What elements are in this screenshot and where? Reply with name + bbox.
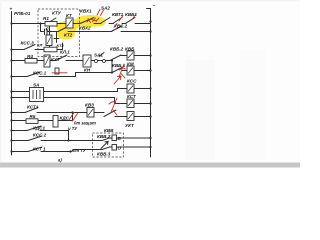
svg-text:КСТ: КСТ [127,94,137,99]
svg-text:КМ: КМ [127,62,134,67]
svg-text:SА: SА [33,83,39,88]
svg-text:КДС: КДС [60,116,70,121]
svg-text:КВБ: КВБ [125,47,135,52]
svg-text:КТ2: КТ2 [64,33,73,38]
svg-text:КСС.3: КСС.3 [21,41,35,46]
svg-text:−: − [153,3,156,8]
svg-text:КН: КН [84,68,91,73]
svg-text:РПБ-01: РПБ-01 [14,11,31,16]
svg-text:КЛ.1: КЛ.1 [60,50,70,55]
svg-text:КВВ.3: КВВ.3 [97,152,111,157]
svg-text:КВВ: КВВ [104,128,114,133]
svg-text:R5: R5 [30,114,36,119]
svg-text:КВХ2: КВХ2 [79,26,91,31]
svg-text:R1: R1 [43,16,49,21]
svg-text:УКТ: УКТ [125,123,135,128]
svg-text:а): а) [58,158,62,163]
svg-text:SА2: SА2 [101,6,110,11]
svg-text:КСТ 1: КСТ 1 [33,147,46,152]
svg-text:0т ТУ: 0т ТУ [73,148,87,153]
svg-text:КВБ.2: КВБ.2 [110,47,124,52]
svg-text:КСС.1: КСС.1 [33,71,47,76]
svg-text:КЛ: КЛ [37,43,42,48]
svg-text:0т защит: 0т защит [74,121,96,126]
svg-text:+: + [10,7,13,12]
svg-text:КСС 2: КСС 2 [33,133,47,138]
svg-text:КТУ: КТУ [52,11,62,16]
svg-text:R4: R4 [27,54,33,59]
svg-text:и ТУ: и ТУ [68,126,78,131]
svg-text:КТ2: КТ2 [57,43,65,48]
svg-text:О: О [118,146,122,151]
svg-text:КСТ1: КСТ1 [27,105,39,110]
svg-text:КВХ1: КВХ1 [80,9,92,14]
svg-text:КСС: КСС [127,79,137,84]
svg-text:КВВ.2: КВВ.2 [97,134,111,139]
svg-text:КДС1: КДС1 [33,126,45,131]
svg-text:КУТ: КУТ [51,57,61,62]
svg-text:SА1: SА1 [94,53,103,58]
svg-text:КВЗ: КВЗ [85,103,94,108]
